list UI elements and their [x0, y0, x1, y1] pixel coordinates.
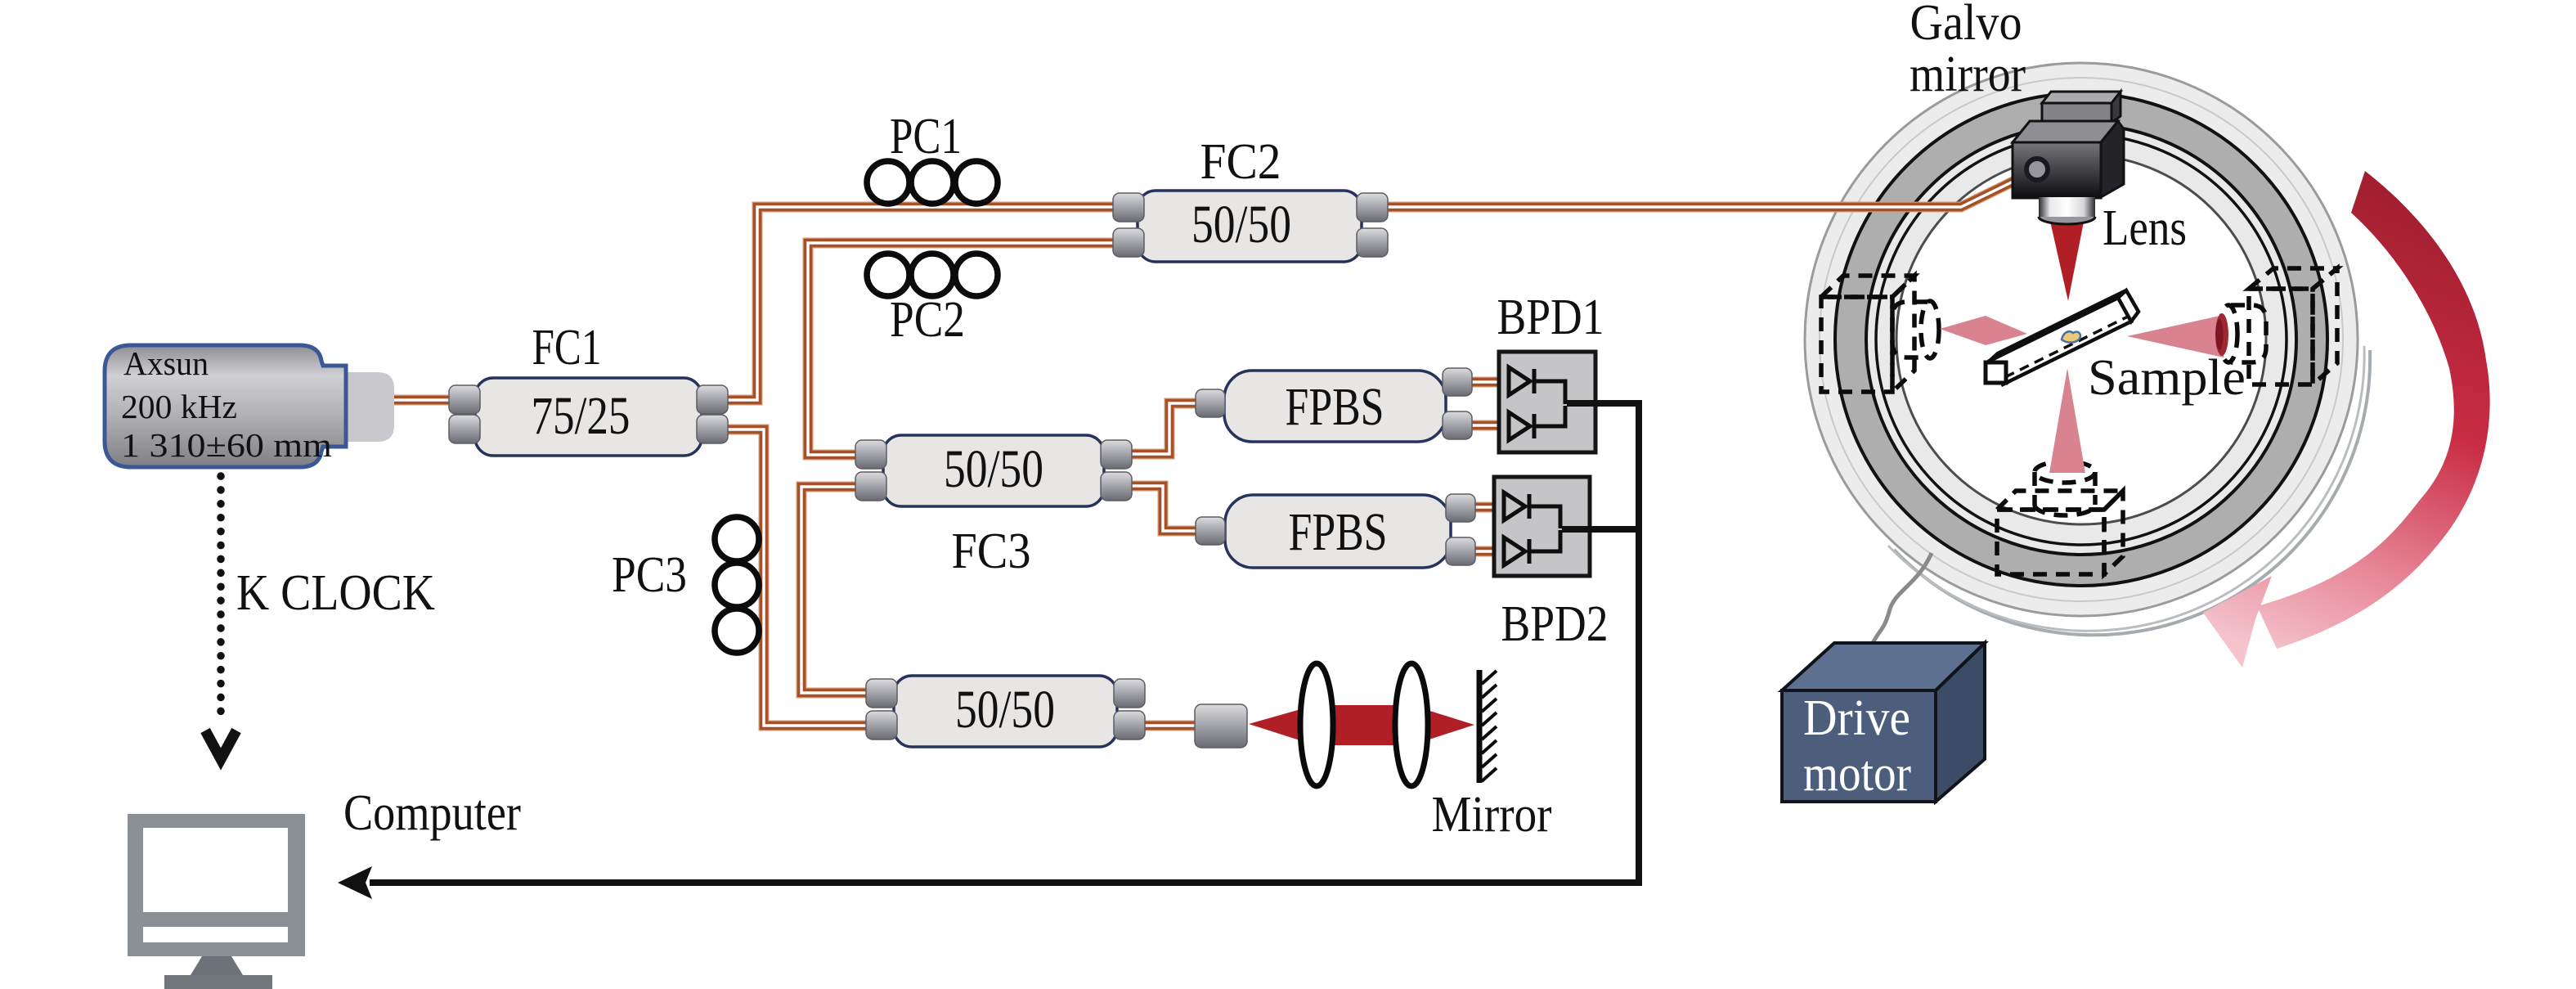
galvo focused beam [2049, 218, 2085, 301]
svg-text:50/50: 50/50 [944, 439, 1043, 499]
right probe red tip [2215, 313, 2228, 356]
FC3 coupler 50/50 [883, 435, 1104, 506]
arrowhead into computer [338, 866, 372, 899]
lens 2 [1395, 663, 1428, 786]
svg-text:PC3: PC3 [612, 547, 687, 603]
svg-text:PC2: PC2 [890, 292, 965, 348]
left probe lens barrel [1892, 302, 1928, 357]
lens 1 [1300, 663, 1333, 786]
FPBS1 connectors [1196, 368, 1472, 439]
fiber: FC3 top-right to FPBS1 [1132, 403, 1199, 454]
right probe dashed box [2219, 268, 2337, 384]
fiber: FC3 bottom-right to FPBS2 [1132, 486, 1199, 531]
BPD2 balanced photodetector [1494, 477, 1590, 576]
svg-text:50/50: 50/50 [955, 680, 1055, 740]
svg-text:BPD1: BPD1 [1497, 290, 1604, 345]
FC1 coupler 75/25 [475, 378, 702, 456]
reference coupler connectors [866, 679, 1145, 740]
right probe lens barrel [2231, 305, 2266, 362]
svg-text:FPBS: FPBS [1289, 502, 1388, 562]
svg-text:75/25: 75/25 [532, 386, 631, 446]
computer monitor [128, 814, 305, 989]
svg-text:FPBS: FPBS [1286, 377, 1384, 437]
FPBS2 connectors [1196, 494, 1475, 565]
FC2 connectors [1113, 193, 1388, 257]
BPD1 balanced photodetector [1499, 352, 1595, 452]
svg-text:BPD2: BPD2 [1501, 596, 1609, 652]
svg-text:Computer: Computer [343, 785, 521, 841]
svg-text:K CLOCK: K CLOCK [236, 565, 435, 621]
fiber: FC3 bottom-left to bottom coupler top-left [801, 487, 868, 693]
drive motor [1782, 643, 1985, 802]
svg-text:Galvo: Galvo [1910, 0, 2022, 51]
svg-text:Mirror: Mirror [1432, 787, 1552, 843]
drive motor cable [1872, 553, 1932, 645]
bottom probe beam [2049, 368, 2085, 473]
Axsun swept source laser [105, 344, 394, 467]
sample bar [1986, 290, 2138, 384]
svg-text:FC3: FC3 [952, 524, 1031, 579]
fiber: FC2 output to galvo mirror [1386, 172, 2033, 207]
fiber: FC1 bottom output down through PC3 to bottom coupler [726, 429, 868, 726]
fiber: FPBS1 to BPD1 (two short) [1470, 382, 1501, 425]
svg-text:Sample: Sample [2088, 350, 2246, 406]
right probe beam [2127, 315, 2224, 357]
sample lesion [2062, 331, 2080, 342]
svg-text:Drive: Drive [1803, 690, 1910, 746]
FC1 connectors [449, 385, 728, 443]
rotation red arrow [2203, 171, 2490, 668]
svg-text:1 310±60 mm: 1 310±60 mm [121, 426, 332, 464]
K CLOCK dotted arrow [205, 476, 236, 759]
svg-text:50/50: 50/50 [1192, 195, 1291, 254]
fiber: FPBS2 to BPD2 (two short) [1474, 507, 1497, 551]
PC2 polarization controller coils [867, 254, 998, 296]
fiber: FC3 top-left up to FC2 via PC2 [808, 243, 1118, 455]
galvo mirror head [2013, 92, 2124, 198]
svg-text:FC1: FC1 [532, 320, 602, 375]
FC2 coupler 50/50 [1138, 191, 1362, 262]
collimator at reference arm [1195, 704, 1247, 748]
svg-text:Lens: Lens [2103, 200, 2187, 256]
mirror with hatching [1479, 670, 1497, 783]
svg-text:Axsun: Axsun [123, 344, 209, 382]
left probe beam [1940, 316, 2027, 345]
FC3 connectors [855, 440, 1132, 501]
svg-text:PC1: PC1 [890, 109, 962, 164]
PC1 polarization controller coils [867, 161, 998, 204]
reference arm coupler 50/50 [894, 676, 1117, 747]
reference beam [1249, 705, 1474, 745]
FPBS1 fiber polarization beam splitter [1224, 371, 1446, 442]
bottom probe dashed box [1997, 461, 2123, 574]
PC3 polarization controller coils [715, 517, 759, 653]
scanner ring gantry [1805, 63, 2370, 635]
bottom probe lens barrel [2035, 461, 2095, 483]
svg-text:motor: motor [1803, 746, 1911, 802]
electrical wire BPD1 to computer [370, 403, 1639, 883]
svg-text:FC2: FC2 [1200, 134, 1281, 190]
galvo lens [2039, 197, 2095, 224]
FPBS2 fiber polarization beam splitter [1225, 495, 1451, 568]
svg-text:mirror: mirror [1910, 47, 2026, 102]
svg-text:200 kHz: 200 kHz [121, 388, 237, 425]
fiber: bottom coupler to collimator [1145, 721, 1196, 731]
left probe dashed box [1821, 276, 1939, 392]
fiber: FC1 top output to FC2 via PC1 [726, 207, 1118, 400]
fiber: Axsun to FC1 [391, 395, 456, 406]
electrical wire BPD2 junction [1562, 526, 1639, 533]
